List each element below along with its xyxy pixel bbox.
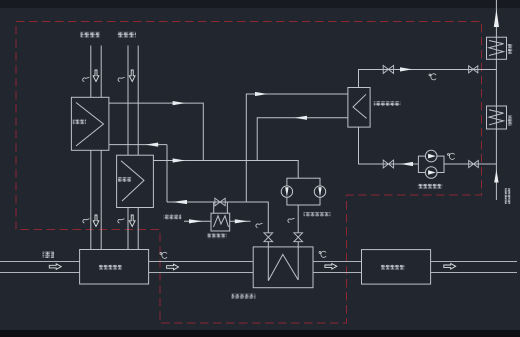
arrow A6 left [294,116,307,120]
wire hot water supply line [167,202,268,233]
valve V1 [215,198,225,206]
heat exchanger 暖风器 1 box [71,97,109,150]
flue gas duct lines [0,262,517,273]
wire aux steam inlet [184,220,211,222]
wire condensate HX bottom inlet [359,127,419,164]
wire aux steam outlet [230,220,251,222]
wire cold secondary air pair [128,46,138,250]
drain heater 疏水加热器 box [211,213,230,231]
label 暖风器 2 [118,177,132,182]
pump P3 circle [425,150,437,162]
label LP heater B [508,116,513,126]
hollow down arrow D2 [129,70,135,82]
valve V2 [383,65,393,73]
curl symbol c3 [83,219,90,223]
valve V4 [469,66,478,73]
label 凝结水换热器 [374,101,401,106]
hollow down arrow D3 [93,215,99,227]
wire branch return from condensate HX [257,118,348,161]
label 空气预热器 [99,265,122,270]
label LP heater A [508,44,513,54]
booster pump box [418,156,444,172]
valve V3 [383,160,393,168]
pump P1 circle [281,186,292,197]
recirculation pump loop [287,178,320,205]
arrow A10 left [400,162,413,166]
bottom dark band [0,330,520,337]
label 静电除尘器 [381,265,405,270]
wire line A from heater1 outlet [109,103,203,160]
valve V6 hourglass [264,233,273,242]
label 暖风器 1 [73,120,86,125]
curl symbol c6 [288,218,295,222]
wire valve stubs to economizer [268,205,298,247]
wire cold primary air pair [91,46,101,250]
curl symbol c1 [83,77,90,81]
label 疏水加热器 [208,234,227,239]
feedwater pipe [495,0,497,200]
temp label T1 [160,252,167,258]
label 冷二次风 [117,32,136,38]
hollow right arrow H2 [167,264,179,270]
label 给水 vertical [505,188,510,204]
label 冷一次风 [81,32,100,38]
label 磁化水升压泵 [418,184,443,189]
wire condensate HX top outlet [359,70,497,88]
arrow A8 right [235,219,248,223]
temp label T2 [319,251,326,257]
wire line B to heater1 inlet [109,144,167,146]
wire branch up to condensate HX supply [246,94,348,202]
LP heater B box [487,106,507,129]
valve V7 hourglass [294,233,303,242]
wire booster pump outlet [444,163,496,165]
LP heater A box [487,37,507,59]
economizer 低温省煤器 box [253,247,313,288]
curl symbol c5 [256,223,263,227]
arrow A11 up [494,9,499,27]
air preheater 空气预热器 box [80,250,149,285]
temp label T4 [447,153,454,159]
hollow down arrow D4 [129,215,135,227]
wire heater bypass stubs [214,202,228,213]
arrow A3 right [173,158,186,162]
arrow A5 right [255,92,268,96]
pump P4 circle [425,167,437,179]
label 凝结水再循环泵 [304,212,331,216]
arrow A12 up [494,170,498,183]
hollow right arrow H4 [444,264,456,270]
hollow right arrow H3 [325,264,337,270]
ESP 静电除尘器 box [362,250,431,285]
curl symbol c2 [118,77,125,81]
pump P2 circle [314,186,325,197]
arrow A7 right [189,219,203,223]
hollow down arrow D1 [93,70,99,82]
curl symbol c4 [118,219,125,223]
label 低温省煤器 [232,294,256,299]
label 辅助蒸汽 [164,215,182,220]
top dark band [0,0,520,8]
hollow right arrow H1 [49,264,61,270]
label 烟气 [43,252,55,258]
arrow A1 right [173,101,186,105]
arrow A9 right [400,67,412,71]
temp label T3 [429,74,436,80]
arrow A4 left [172,200,187,204]
heat exchanger 暖风器 2 box [117,155,154,207]
valve V5 [469,160,479,167]
wire riser x167 [166,145,168,202]
arrow A2 left [146,143,159,147]
wire heater2 outlet header [153,161,298,179]
condensate HX 凝结水换热器 box [348,88,370,128]
